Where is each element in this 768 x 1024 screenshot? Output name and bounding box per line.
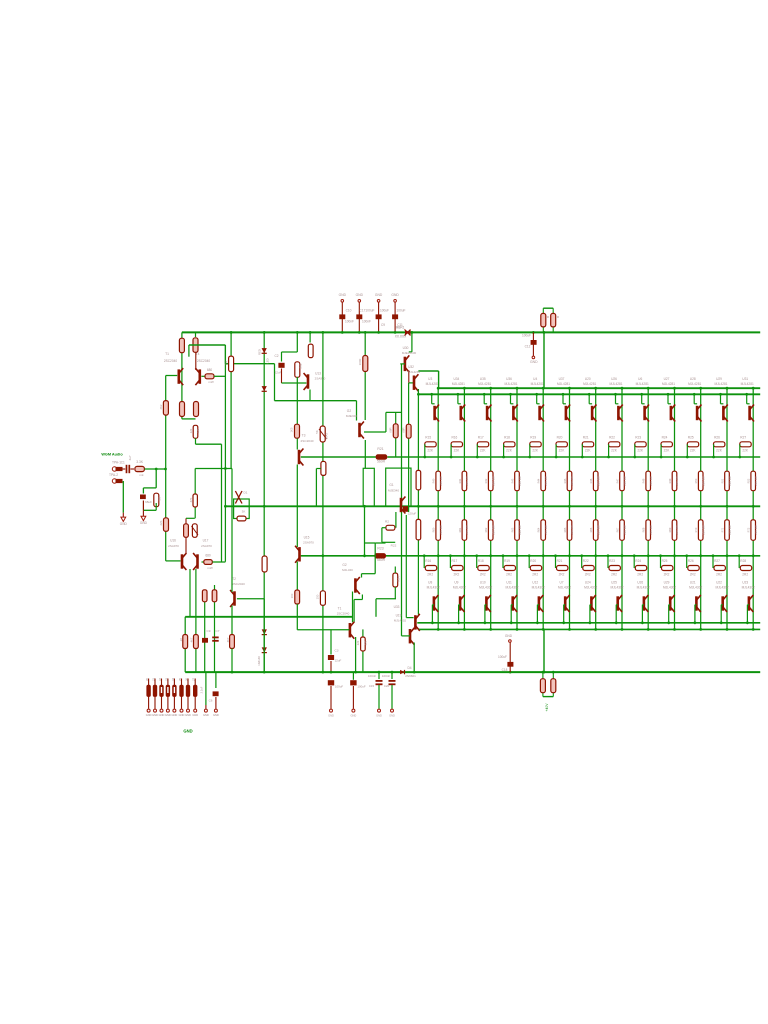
svg-text:R28: R28 [740, 559, 746, 563]
svg-text:C18: C18 [502, 668, 508, 672]
svg-text:U10: U10 [480, 581, 486, 585]
svg-text:.22: .22 [179, 638, 183, 642]
svg-text:R: R [547, 315, 550, 319]
svg-text:100uF: 100uF [522, 334, 531, 338]
svg-text:MJL4302: MJL4302 [610, 585, 623, 589]
svg-text:100R: 100R [358, 359, 362, 366]
svg-text:R52: R52 [747, 478, 751, 483]
svg-text:U27: U27 [664, 377, 670, 381]
svg-text:C15: C15 [369, 684, 375, 688]
svg-text:MJL4281: MJL4281 [741, 382, 754, 386]
svg-text:22R 3W: 22R 3W [439, 476, 443, 486]
svg-text:MJL4302: MJL4302 [584, 585, 597, 589]
svg-text:D1: D1 [244, 491, 248, 495]
svg-text:MJL4302: MJL4302 [637, 585, 650, 589]
svg-text:GND: GND [356, 293, 364, 297]
svg-text:U8: U8 [428, 581, 432, 585]
svg-text:R27: R27 [740, 436, 746, 440]
svg-text:2R2: 2R2 [637, 573, 643, 577]
svg-text:R17: R17 [478, 436, 484, 440]
svg-text:10K: 10K [225, 360, 229, 365]
svg-text:2R2: 2R2 [585, 573, 591, 577]
svg-text:100uF: 100uF [335, 685, 343, 689]
svg-text:22K: 22K [427, 449, 434, 453]
svg-text:G2: G2 [347, 409, 352, 413]
svg-text:U19: U19 [396, 614, 402, 618]
svg-text:R25: R25 [688, 436, 694, 440]
svg-text:U23: U23 [742, 581, 748, 585]
svg-text:4K7: 4K7 [190, 637, 194, 642]
svg-text:RED: RED [258, 349, 262, 355]
svg-text:D4: D4 [407, 666, 411, 670]
svg-text:100uF: 100uF [357, 685, 365, 689]
svg-text:R20: R20 [557, 436, 563, 440]
svg-text:22R 3W: 22R 3W [544, 476, 548, 486]
svg-text:WGM Audio: WGM Audio [101, 453, 123, 457]
svg-text:C12: C12 [525, 345, 531, 349]
svg-text:MJL340: MJL340 [342, 568, 353, 572]
svg-text:J2: J2 [158, 678, 162, 681]
svg-text:2SA970: 2SA970 [168, 544, 179, 548]
svg-text:4K7: 4K7 [226, 637, 230, 642]
svg-text:R24: R24 [662, 436, 668, 440]
svg-text:GND: GND [376, 714, 382, 718]
svg-text:R67: R67 [615, 527, 619, 532]
svg-text:22R 3W: 22R 3W [675, 525, 679, 535]
svg-text:T3: T3 [302, 434, 306, 438]
svg-text:GND: GND [328, 714, 334, 718]
svg-text:22R 3W: 22R 3W [570, 476, 574, 486]
svg-text:220: 220 [189, 428, 193, 433]
svg-text:R22: R22 [391, 544, 397, 548]
svg-text:R18: R18 [504, 436, 510, 440]
svg-text:U21: U21 [690, 581, 696, 585]
svg-text:2SC2040: 2SC2040 [164, 359, 178, 363]
svg-text:47K: 47K [189, 497, 193, 502]
svg-text:22R 3W: 22R 3W [492, 476, 496, 486]
svg-text:2SA970: 2SA970 [315, 377, 326, 381]
svg-text:22R 3W: 22R 3W [492, 525, 496, 535]
svg-text:3.3K: 3.3K [136, 460, 144, 464]
svg-text:22K: 22K [690, 449, 697, 453]
svg-text:MJL4281: MJL4281 [557, 382, 570, 386]
svg-text:U3: U3 [428, 377, 432, 381]
svg-text:U24: U24 [585, 581, 591, 585]
svg-text:R23: R23 [377, 547, 383, 551]
svg-text:C9: C9 [207, 629, 211, 633]
svg-text:R24: R24 [635, 559, 641, 563]
svg-text:GND: GND [213, 713, 219, 717]
svg-text:1N4148: 1N4148 [257, 656, 261, 666]
svg-text:560R: 560R [377, 558, 386, 562]
svg-text:U30: U30 [403, 346, 409, 350]
svg-text:R46: R46 [589, 478, 593, 483]
svg-text:C3: C3 [335, 649, 339, 653]
svg-text:22R 3W: 22R 3W [675, 476, 679, 486]
svg-text:1K5: 1K5 [290, 427, 294, 432]
svg-text:U13: U13 [315, 372, 321, 376]
svg-text:U26: U26 [637, 581, 643, 585]
svg-text:22R 3W: 22R 3W [623, 476, 627, 486]
svg-text:R20: R20 [530, 559, 536, 563]
svg-text:2SA970: 2SA970 [303, 541, 314, 545]
svg-text:U28: U28 [690, 377, 696, 381]
svg-text:560R: 560R [377, 460, 386, 464]
svg-text:2SC2040: 2SC2040 [337, 612, 350, 616]
svg-text:R64: R64 [537, 527, 541, 532]
svg-text:R50: R50 [694, 478, 698, 483]
svg-text:R22: R22 [609, 436, 615, 440]
svg-text:GND: GND [203, 713, 209, 717]
svg-text:22R 3W: 22R 3W [518, 525, 522, 535]
svg-text:22R 3W: 22R 3W [597, 476, 601, 486]
svg-text:+40V: +40V [545, 703, 549, 712]
svg-text:3K: 3K [242, 510, 246, 514]
svg-text:U26: U26 [611, 377, 617, 381]
svg-text:R15: R15 [425, 436, 431, 440]
svg-text:R19: R19 [504, 559, 510, 563]
svg-text:T1: T1 [165, 352, 169, 356]
svg-text:GND: GND [185, 713, 191, 717]
svg-text:22R 3W: 22R 3W [570, 525, 574, 535]
svg-text:GND: GND [140, 521, 148, 525]
svg-text:22uF: 22uF [335, 659, 342, 663]
svg-text:R65: R65 [563, 527, 567, 532]
svg-text:R44: R44 [537, 478, 541, 483]
svg-text:C17100uF: C17100uF [360, 309, 375, 313]
svg-text:68R: 68R [389, 427, 393, 432]
svg-text:1K: 1K [158, 497, 162, 501]
svg-text:2R2: 2R2 [742, 573, 748, 577]
svg-text:GND: GND [183, 729, 192, 734]
svg-text:2SC2040: 2SC2040 [301, 439, 314, 443]
svg-text:R21: R21 [583, 436, 589, 440]
svg-text:C10: C10 [346, 309, 352, 313]
svg-text:MJL4302: MJL4302 [505, 585, 518, 589]
svg-text:J6: J6 [185, 678, 189, 681]
svg-text:U17: U17 [203, 539, 209, 543]
svg-text:2.2uF: 2.2uF [200, 686, 204, 693]
svg-text:C7: C7 [216, 629, 220, 633]
svg-text:R16: R16 [425, 559, 431, 563]
svg-text:GND: GND [339, 293, 347, 297]
svg-text:GND: GND [530, 360, 538, 364]
svg-text:MJL4302: MJL4302 [394, 619, 407, 623]
svg-text:MJL4281: MJL4281 [688, 382, 701, 386]
svg-text:22R 3W: 22R 3W [623, 525, 627, 535]
svg-text:22R 3W: 22R 3W [649, 525, 653, 535]
svg-text:22K: 22K [742, 449, 749, 453]
svg-text:2R2: 2R2 [664, 573, 670, 577]
svg-text:680: 680 [207, 368, 213, 372]
svg-text:22K: 22K [454, 449, 461, 453]
svg-text:22R 3W: 22R 3W [649, 476, 653, 486]
svg-text:U6: U6 [638, 377, 642, 381]
svg-text:G2: G2 [342, 563, 346, 567]
svg-text:R26: R26 [688, 559, 694, 563]
svg-text:J0: J0 [145, 678, 149, 681]
svg-text:GND: GND [179, 713, 185, 717]
svg-text:C2: C2 [274, 354, 278, 358]
svg-text:220uF: 220uF [408, 512, 417, 516]
svg-text:U34: U34 [453, 377, 459, 381]
svg-text:R25: R25 [662, 559, 668, 563]
svg-text:22K: 22K [637, 449, 644, 453]
svg-text:U32: U32 [408, 365, 414, 369]
svg-text:R51: R51 [720, 478, 724, 483]
svg-text:150: 150 [316, 594, 320, 599]
svg-text:GND: GND [165, 713, 171, 717]
svg-text:MJE340: MJE340 [388, 489, 399, 493]
svg-text:2K2: 2K2 [299, 363, 303, 368]
svg-text:220: 220 [356, 640, 360, 645]
svg-text:R69: R69 [668, 527, 672, 532]
svg-text:2R2: 2R2 [559, 573, 565, 577]
svg-text:R41: R41 [458, 478, 462, 483]
svg-text:68uF: 68uF [145, 500, 152, 504]
svg-text:R23: R23 [609, 559, 615, 563]
svg-text:R61: R61 [458, 527, 462, 532]
svg-text:R21: R21 [377, 447, 383, 451]
svg-text:TPA-2: TPA-2 [109, 473, 118, 477]
svg-text:mW: mW [207, 566, 212, 570]
svg-text:2R2: 2R2 [427, 573, 433, 577]
svg-text:R2: R2 [385, 520, 389, 524]
svg-text:22K: 22K [585, 449, 592, 453]
svg-text:J1: J1 [152, 678, 156, 681]
svg-text:100: 100 [290, 593, 294, 598]
svg-text:R: R [557, 315, 560, 319]
svg-text:U33: U33 [394, 605, 400, 609]
svg-text:J3: J3 [164, 678, 168, 681]
svg-text:GND: GND [120, 522, 128, 526]
svg-text:R18: R18 [478, 559, 484, 563]
svg-text:100uF: 100uF [380, 309, 389, 313]
svg-text:2R2: 2R2 [611, 573, 617, 577]
svg-text:MJL4281: MJL4281 [714, 382, 727, 386]
svg-text:R19: R19 [530, 436, 536, 440]
svg-text:22R 3W: 22R 3W [544, 525, 548, 535]
svg-text:R22: R22 [583, 559, 589, 563]
svg-text:R71: R71 [720, 527, 724, 532]
svg-text:MJL4302: MJL4302 [558, 585, 571, 589]
svg-text:GND: GND [351, 714, 357, 718]
svg-text:22R 3W: 22R 3W [702, 476, 706, 486]
svg-text:C6: C6 [209, 699, 213, 703]
svg-text:22K: 22K [506, 449, 513, 453]
svg-text:22R 3W: 22R 3W [702, 525, 706, 535]
svg-text:T2: T2 [232, 577, 236, 581]
svg-text:R68: R68 [642, 527, 646, 532]
svg-text:GND: GND [389, 714, 395, 718]
svg-text:C1: C1 [121, 461, 125, 465]
svg-text:MJL4281: MJL4281 [504, 382, 517, 386]
svg-text:U29: U29 [664, 581, 670, 585]
svg-text:T1: T1 [338, 607, 342, 611]
svg-text:MJL4302: MJL4302 [742, 585, 755, 589]
svg-text:C9: C9 [381, 323, 385, 327]
svg-text:MJL4281: MJL4281 [609, 382, 622, 386]
svg-text:22K: 22K [159, 520, 163, 525]
svg-text:U37: U37 [559, 377, 565, 381]
svg-text:GND: GND [192, 713, 198, 717]
svg-text:680: 680 [205, 553, 211, 557]
svg-text:J5: J5 [178, 678, 182, 681]
svg-text:R72: R72 [747, 527, 751, 532]
svg-text:MJL4302: MJL4302 [663, 585, 676, 589]
svg-text:MJL4281: MJL4281 [583, 382, 596, 386]
svg-text:U36: U36 [506, 377, 512, 381]
svg-text:R16: R16 [451, 436, 457, 440]
svg-text:U15: U15 [304, 536, 310, 540]
svg-text:MJL4302: MJL4302 [453, 585, 466, 589]
svg-text:U7: U7 [559, 581, 563, 585]
svg-text:R47: R47 [615, 478, 619, 483]
svg-text:R48: R48 [642, 478, 646, 483]
svg-text:R26: R26 [714, 436, 720, 440]
svg-text:R23: R23 [635, 436, 641, 440]
svg-text:R40: R40 [432, 478, 436, 483]
svg-text:J7: J7 [192, 678, 196, 681]
svg-text:2R2: 2R2 [480, 573, 486, 577]
svg-text:MBR1: MBR1 [396, 326, 405, 330]
svg-text:GND: GND [172, 713, 178, 717]
svg-text:MJL4281: MJL4281 [426, 382, 439, 386]
svg-text:22K: 22K [532, 449, 539, 453]
svg-text:100nF: 100nF [362, 320, 371, 324]
svg-text:BIAS: BIAS [325, 433, 329, 440]
svg-text:J4: J4 [171, 678, 175, 681]
svg-text:22R 3W: 22R 3W [728, 525, 732, 535]
svg-text:GND: GND [159, 713, 165, 717]
svg-text:R21: R21 [557, 559, 563, 563]
svg-text:22K: 22K [611, 449, 618, 453]
svg-text:22K: 22K [559, 449, 566, 453]
svg-text:U20: U20 [585, 377, 591, 381]
svg-text:U25: U25 [611, 581, 617, 585]
svg-text:220: 220 [196, 428, 200, 433]
svg-text:MJL4281: MJL4281 [531, 382, 544, 386]
svg-text:2SA970: 2SA970 [201, 544, 212, 548]
svg-text:22R 3W: 22R 3W [465, 476, 469, 486]
svg-text:MJL4302: MJL4302 [532, 585, 545, 589]
svg-text:MJL4302: MJL4302 [715, 585, 728, 589]
svg-text:220: 220 [364, 640, 368, 645]
svg-text:R42: R42 [484, 478, 488, 483]
svg-text:U11: U11 [506, 581, 512, 585]
svg-text:MJL4281: MJL4281 [478, 382, 491, 386]
svg-text:MJL4302: MJL4302 [479, 585, 492, 589]
svg-text:22R 3W: 22R 3W [754, 525, 758, 535]
svg-text:R62: R62 [484, 527, 488, 532]
svg-text:MJL4302: MJL4302 [427, 585, 440, 589]
svg-text:22R 3W: 22R 3W [518, 476, 522, 486]
svg-text:2R2: 2R2 [690, 573, 696, 577]
svg-text:2R2: 2R2 [453, 573, 459, 577]
svg-text:R45: R45 [563, 478, 567, 483]
svg-text:MJL4302: MJL4302 [689, 585, 702, 589]
svg-text:U4: U4 [533, 377, 537, 381]
svg-text:22R 3W: 22R 3W [597, 525, 601, 535]
svg-text:22R 3W: 22R 3W [754, 476, 758, 486]
svg-text:100uF: 100uF [498, 655, 507, 659]
svg-text:mk: mk [140, 473, 144, 477]
svg-text:MJE340: MJE340 [346, 414, 358, 418]
svg-text:U9: U9 [454, 581, 458, 585]
svg-text:U12: U12 [532, 581, 538, 585]
svg-text:22K: 22K [664, 449, 671, 453]
svg-text:R66: R66 [589, 527, 593, 532]
svg-text:mW: mW [208, 380, 213, 384]
svg-text:2N6661: 2N6661 [405, 674, 416, 678]
svg-text:MJL4281: MJL4281 [408, 370, 421, 374]
svg-text:R17: R17 [451, 559, 457, 563]
svg-text:2SC2040: 2SC2040 [232, 582, 245, 586]
svg-text:R60: R60 [432, 527, 436, 532]
svg-text:100uF: 100uF [396, 309, 405, 313]
svg-text:22uF: 22uF [275, 371, 282, 375]
svg-text:GND: GND [152, 713, 158, 717]
svg-text:22K: 22K [716, 449, 723, 453]
svg-text:100nF: 100nF [368, 674, 376, 678]
svg-text:U29: U29 [716, 377, 722, 381]
svg-text:R27: R27 [714, 559, 720, 563]
svg-text:R70: R70 [694, 527, 698, 532]
svg-text:U22: U22 [716, 581, 722, 585]
svg-text:GND: GND [375, 293, 383, 297]
svg-text:MJL4281: MJL4281 [636, 382, 649, 386]
svg-text:2K2: 2K2 [159, 404, 163, 409]
svg-text:MJE15030: MJE15030 [402, 351, 417, 355]
svg-text:GND: GND [391, 293, 399, 297]
svg-text:GND: GND [146, 713, 152, 717]
svg-text:4u7: 4u7 [128, 455, 132, 460]
svg-text:U16: U16 [170, 539, 176, 543]
svg-text:2R2: 2R2 [506, 573, 512, 577]
svg-text:R49: R49 [668, 478, 672, 483]
svg-text:U31: U31 [742, 377, 748, 381]
svg-text:2SC2040: 2SC2040 [197, 359, 211, 363]
svg-text:100nF: 100nF [382, 674, 390, 678]
svg-text:MJL4281: MJL4281 [662, 382, 675, 386]
svg-text:68R: 68R [402, 427, 406, 432]
svg-text:R43: R43 [510, 478, 514, 483]
svg-text:22K: 22K [480, 449, 487, 453]
svg-text:2R2: 2R2 [716, 573, 722, 577]
svg-text:22R 3W: 22R 3W [439, 525, 443, 535]
svg-text:R24: R24 [397, 576, 401, 582]
svg-text:U35: U35 [480, 377, 486, 381]
svg-text:2R2: 2R2 [532, 573, 538, 577]
svg-text:LED: LED [266, 358, 270, 363]
svg-text:G1: G1 [389, 483, 393, 487]
svg-text:22R 3W: 22R 3W [465, 525, 469, 535]
svg-text:R63: R63 [510, 527, 514, 532]
svg-text:MJL4281: MJL4281 [452, 382, 465, 386]
svg-text:22R 3W: 22R 3W [728, 476, 732, 486]
svg-text:100nF: 100nF [345, 320, 354, 324]
svg-text:5K: 5K [315, 430, 319, 434]
svg-text:GND: GND [505, 634, 513, 638]
svg-text:C20: C20 [384, 684, 390, 688]
